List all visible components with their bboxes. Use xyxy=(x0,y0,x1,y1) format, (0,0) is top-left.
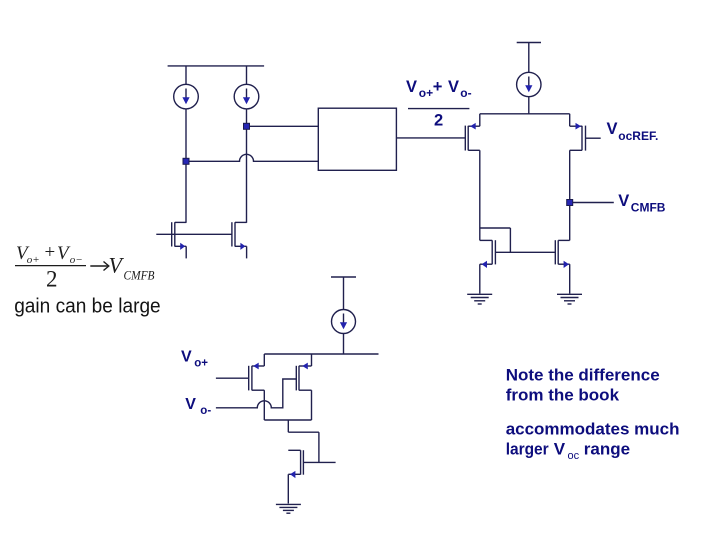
svg-text:o-: o- xyxy=(200,405,211,417)
svg-text:V: V xyxy=(185,396,196,413)
svg-text:ocREF.: ocREF. xyxy=(618,129,658,143)
svg-text:2: 2 xyxy=(46,266,58,291)
svg-text:V: V xyxy=(181,349,192,366)
svg-text:CMFB: CMFB xyxy=(631,200,666,214)
svg-text:from the book: from the book xyxy=(506,385,620,404)
svg-text:2: 2 xyxy=(434,112,443,130)
svg-text:V: V xyxy=(607,120,618,138)
svg-text:V: V xyxy=(448,78,459,96)
svg-text:accommodates much: accommodates much xyxy=(506,420,680,439)
svg-text:oc: oc xyxy=(568,450,580,462)
svg-text:o+: o+ xyxy=(194,358,208,370)
svg-text:V: V xyxy=(618,192,629,210)
svg-text:o+: o+ xyxy=(419,86,433,100)
svg-text:range: range xyxy=(584,439,630,458)
svg-text:+: + xyxy=(45,242,56,263)
svg-text:o−: o− xyxy=(70,254,83,266)
svg-text:CMFB: CMFB xyxy=(124,269,155,283)
svg-text:o-: o- xyxy=(460,86,471,100)
svg-text:+: + xyxy=(433,78,443,96)
svg-text:gain can be large: gain can be large xyxy=(14,294,161,317)
svg-text:V: V xyxy=(406,78,417,96)
svg-text:Note the difference: Note the difference xyxy=(506,365,660,384)
svg-text:V: V xyxy=(554,439,566,458)
svg-text:larger: larger xyxy=(506,439,549,458)
svg-text:o+: o+ xyxy=(27,254,40,266)
